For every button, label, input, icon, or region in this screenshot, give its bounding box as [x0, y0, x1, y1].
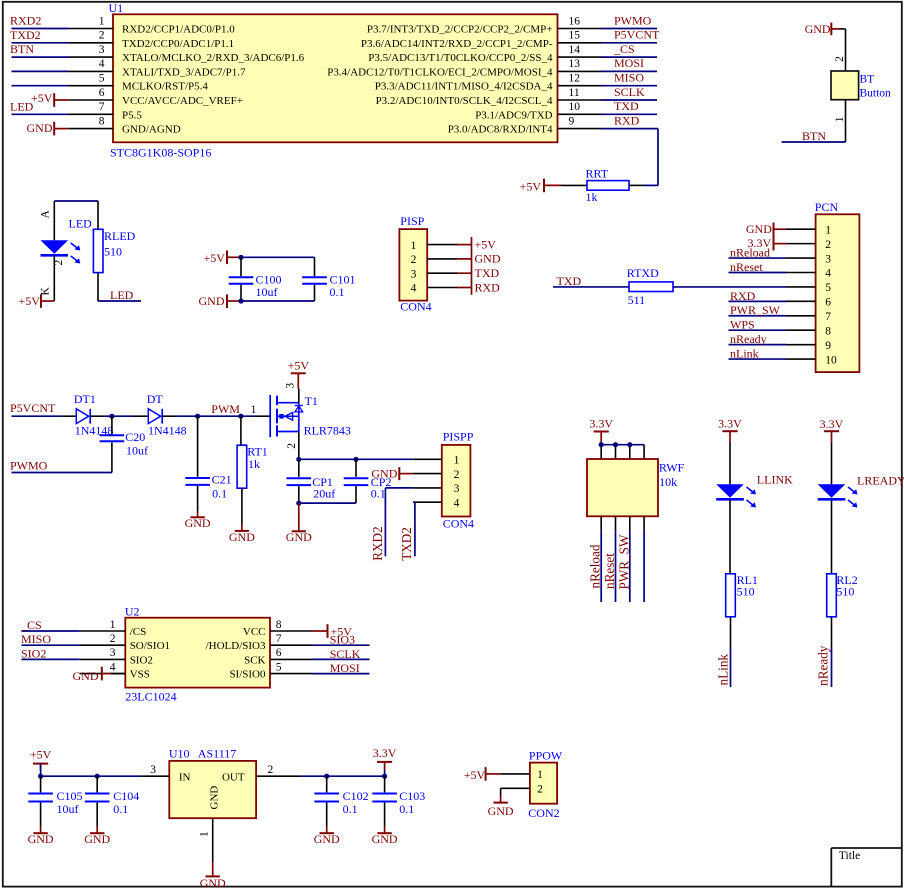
svg-text:23LC1024: 23LC1024 — [125, 690, 176, 704]
svg-text:2: 2 — [454, 469, 460, 481]
PCN pin 3 — [786, 253, 831, 265]
svg-text:+5V: +5V — [31, 91, 53, 105]
wire nReady — [831, 648, 833, 687]
U1 pin 10 P3.1/ADC9/TXD — [475, 101, 601, 121]
svg-text:MOSI: MOSI — [330, 661, 360, 675]
wire SIO2 — [22, 658, 80, 660]
wire nLink — [729, 358, 787, 360]
svg-text:0.1: 0.1 — [113, 802, 128, 816]
svg-text:+5V: +5V — [288, 358, 310, 372]
svg-text:1: 1 — [537, 769, 543, 781]
wire _CS — [601, 56, 657, 58]
svg-text:GND: GND — [200, 876, 226, 889]
wire MISO — [22, 644, 80, 646]
PCN pin 9 — [786, 340, 831, 352]
svg-text:C105: C105 — [57, 789, 83, 803]
svg-text:3: 3 — [150, 764, 156, 776]
U1 pin 11 P3.2/ADC10/INT0/SCLK_4/I2CSCL_4 — [376, 87, 601, 107]
svg-text:GND: GND — [229, 530, 255, 544]
svg-text:+5V: +5V — [30, 748, 52, 762]
svg-text:6: 6 — [99, 87, 105, 99]
svg-text:PWM: PWM — [211, 402, 240, 416]
svg-text:GND: GND — [488, 804, 514, 818]
svg-text:5: 5 — [825, 282, 831, 294]
svg-text:TXD2: TXD2 — [10, 28, 41, 42]
ground GND at C102 — [314, 826, 340, 846]
svg-text:3: 3 — [825, 253, 831, 265]
svg-text:MOSI: MOSI — [614, 56, 644, 70]
net label MISO — [614, 71, 644, 85]
svg-text:2: 2 — [537, 784, 543, 796]
wire BTN — [782, 141, 846, 143]
net label MOSI — [614, 56, 644, 70]
PCN pin 4 — [786, 268, 831, 280]
U1 pin 8 GND/AGND — [69, 115, 181, 135]
power GND at BT pin 2 — [805, 22, 840, 36]
power 3.3V at LLINK — [718, 417, 742, 443]
svg-text:C20: C20 — [125, 430, 145, 444]
svg-text:C103: C103 — [399, 789, 425, 803]
svg-text:1: 1 — [834, 116, 846, 122]
svg-text:RXD: RXD — [614, 113, 640, 127]
PCN pin 10 — [786, 354, 837, 366]
wire MOSI — [312, 673, 370, 675]
capacitor C21 0.1 — [185, 416, 231, 511]
svg-text:10: 10 — [569, 101, 581, 113]
ground GND at PPOW pin 2 — [488, 788, 514, 818]
U10 pin 2 OUT — [256, 764, 300, 776]
svg-text:MISO: MISO — [21, 632, 51, 646]
svg-text:2: 2 — [834, 56, 846, 62]
wire (unlabelled stub) — [12, 70, 70, 72]
wire CP bottom rail — [299, 502, 356, 504]
PISPP pin 4 — [413, 497, 459, 509]
svg-text:CON2: CON2 — [528, 806, 559, 820]
net label TXD — [557, 274, 582, 288]
svg-text:20uf: 20uf — [313, 487, 335, 501]
transistor T1 RLR7843 P-MOSFET — [251, 383, 351, 460]
svg-text:RTXD: RTXD — [627, 266, 659, 280]
junction — [296, 457, 301, 462]
svg-text:14: 14 — [569, 44, 581, 56]
svg-text:16: 16 — [569, 15, 581, 27]
wire RXD to resistor RRT — [644, 129, 658, 186]
U1 pin 5 MCLKO/RST/P5.4 — [69, 73, 208, 93]
wire nReload — [729, 257, 787, 259]
svg-text:P3.5/ADC13/T1/T0CLKO/CCP0_2/SS: P3.5/ADC13/T1/T0CLKO/CCP0_2/SS_4 — [368, 52, 553, 64]
ground GND at PISPP pin 2 — [371, 466, 413, 480]
svg-text:nReset: nReset — [730, 260, 763, 274]
svg-text:2: 2 — [825, 239, 831, 251]
svg-text:nReady: nReady — [816, 645, 831, 686]
svg-text:GND: GND — [314, 832, 340, 846]
svg-text:0.1: 0.1 — [371, 487, 386, 501]
svg-text:PWR_SW: PWR_SW — [730, 303, 781, 317]
diode DT1 1N4148 — [74, 392, 113, 438]
resistor network RWF 10k — [587, 459, 685, 531]
net label nReload — [730, 245, 770, 259]
power +5V at T1 pin 3 — [288, 358, 310, 388]
wire MOSI — [601, 70, 657, 72]
U1 pin 7 P5.5 — [69, 101, 142, 121]
svg-text:AS1117: AS1117 — [198, 747, 236, 761]
svg-text:GND: GND — [199, 294, 225, 308]
U2 pin 5 SI/SIO0 — [229, 661, 312, 680]
svg-text:GND: GND — [27, 121, 53, 135]
svg-text:P3.4/ADC12/T0/T1CLKO/ECI_2/CMP: P3.4/ADC12/T0/T1CLKO/ECI_2/CMPO/MOSI_4 — [327, 66, 553, 78]
wire P5VCNT — [12, 415, 77, 417]
net label RXD — [730, 289, 756, 303]
net label nReload — [588, 544, 603, 588]
svg-text:PPOW: PPOW — [529, 748, 563, 762]
svg-text:/HOLD/SIO3: /HOLD/SIO3 — [206, 640, 266, 652]
svg-text:RXD: RXD — [730, 289, 756, 303]
U2 pin 7 /HOLD/SIO3 — [206, 633, 312, 652]
LED diode LED — [40, 201, 99, 301]
svg-text:RXD2: RXD2 — [370, 526, 385, 560]
junction — [238, 298, 243, 303]
svg-text:BTN: BTN — [802, 129, 826, 143]
svg-text:nReady: nReady — [730, 332, 767, 346]
capacitor C105 10uf — [28, 776, 82, 826]
resistor RL1 510 — [726, 573, 758, 648]
net label SIO2 — [21, 646, 46, 660]
junction — [95, 774, 100, 779]
capacitor C104 0.1 — [85, 776, 139, 826]
net label +5V — [475, 237, 497, 251]
svg-text:5: 5 — [276, 661, 282, 673]
svg-text:8: 8 — [276, 619, 282, 631]
U10 pin 3 IN — [141, 764, 170, 776]
svg-text:510: 510 — [737, 584, 755, 598]
junction — [324, 774, 329, 779]
red stub wires to PISP labels — [457, 237, 472, 295]
svg-text:OUT: OUT — [222, 772, 245, 784]
svg-text:LED: LED — [10, 100, 34, 114]
wire GND rail — [241, 300, 315, 302]
net label nReady — [816, 645, 831, 686]
svg-text:1k: 1k — [248, 457, 260, 471]
svg-text:RLED: RLED — [104, 229, 136, 243]
junction — [627, 442, 632, 447]
svg-text:P5VCNT: P5VCNT — [614, 28, 660, 42]
switch BT Button — [831, 56, 891, 142]
net label TXD2 — [10, 28, 41, 42]
ground GND at C100 — [199, 294, 242, 308]
wire TXD2 — [413, 502, 415, 556]
power GND at PCN pin 1 — [746, 222, 786, 236]
svg-text:SCLK: SCLK — [330, 647, 361, 661]
svg-text:P3.1/ADC9/TXD: P3.1/ADC9/TXD — [475, 109, 552, 121]
net label P5VCNT — [614, 28, 660, 42]
wire TXD — [553, 286, 629, 288]
net label _CS — [20, 618, 42, 632]
net label BTN — [10, 42, 34, 56]
svg-text:4: 4 — [110, 661, 116, 673]
svg-text:0.1: 0.1 — [330, 285, 345, 299]
svg-text:2: 2 — [411, 254, 417, 266]
ground GND at C103 — [372, 826, 398, 846]
svg-text:SCK: SCK — [244, 654, 265, 666]
wire nReload — [600, 531, 602, 602]
U2 pin 1 /CS — [80, 619, 147, 638]
wire BTN — [12, 56, 70, 58]
svg-text:U1: U1 — [109, 1, 124, 15]
net label LED — [110, 288, 134, 302]
svg-text:WPS: WPS — [730, 318, 755, 332]
svg-text:GND: GND — [73, 669, 99, 683]
power +5V at input rail — [30, 748, 52, 770]
capacitor C20 10uf — [100, 416, 148, 472]
junction — [195, 414, 200, 419]
PISP pin 1 — [411, 240, 457, 252]
svg-text:4: 4 — [411, 283, 417, 295]
wire SCLK — [601, 99, 657, 101]
svg-text:GND: GND — [209, 786, 221, 810]
wire PWM — [176, 415, 255, 417]
svg-text:C21: C21 — [212, 473, 232, 487]
svg-text:PISPP: PISPP — [443, 430, 474, 444]
svg-text:PWMO: PWMO — [10, 458, 48, 472]
svg-text:3.3V: 3.3V — [718, 417, 742, 431]
PISPP pin 3 — [413, 483, 459, 495]
IC U1 STC8G1K08-SOP16 — [69, 1, 601, 159]
svg-text:10uf: 10uf — [256, 285, 278, 299]
svg-text:7: 7 — [276, 633, 282, 645]
junction — [613, 442, 618, 447]
power +5V at U2 pin 8 — [312, 624, 352, 638]
junction — [296, 501, 301, 506]
net label _CS — [613, 42, 635, 56]
wire RTXD to PCN pin 5 — [673, 286, 786, 288]
U1 pin 16 P3.7/INT3/TXD_2/CCP2/CCP2_2/CMP+ — [367, 15, 601, 35]
svg-text:GND: GND — [805, 22, 831, 36]
U2 pin 4 VSS — [80, 661, 150, 680]
svg-text:8: 8 — [99, 115, 105, 127]
wire (4th RWF pin) — [643, 531, 645, 602]
svg-text:10k: 10k — [659, 475, 677, 489]
U1 pin 13 P3.4/ADC12/T0/T1CLKO/ECI_2/CMPO/MOSI_4 — [327, 58, 601, 78]
wire LED net — [98, 300, 141, 302]
svg-text:P3.6/ADC14/INT2/RXD_2/CCP1_2/C: P3.6/ADC14/INT2/RXD_2/CCP1_2/CMP- — [361, 38, 553, 50]
PISPP pin 1 — [413, 455, 459, 467]
svg-text:LED: LED — [69, 217, 93, 231]
svg-text:P3.3/ADC11/INT1/MISO_4/I2CSDA_: P3.3/ADC11/INT1/MISO_4/I2CSDA_4 — [375, 81, 553, 93]
power +5V at RRT — [520, 179, 561, 194]
U1 pin 4 XTALI/TXD_3/ADC7/P1.7 — [69, 58, 246, 78]
svg-text:C104: C104 — [113, 789, 139, 803]
svg-text:DT1: DT1 — [74, 392, 96, 406]
svg-text:TXD2/CCP0/ADC1/P1.1: TXD2/CCP0/ADC1/P1.1 — [122, 38, 234, 50]
svg-text:7: 7 — [99, 101, 105, 113]
net label SCLK — [330, 647, 361, 661]
wire GND to BT — [840, 29, 846, 71]
ground GND at C105 — [28, 826, 54, 846]
wire U10 output rail — [300, 775, 385, 777]
diode DT 1N4148 — [134, 392, 187, 438]
svg-text:RLR7843: RLR7843 — [304, 424, 351, 438]
wire 3.3V rail at RWF — [601, 445, 644, 459]
net label PWR_SW — [730, 303, 781, 317]
U2 pin 8 VCC — [243, 619, 312, 638]
power +5V at C100 — [204, 251, 242, 265]
PPOW pin 2 — [501, 784, 544, 796]
svg-text:0.1: 0.1 — [399, 802, 414, 816]
U2 pin 3 SIO2 — [80, 647, 153, 666]
svg-text:SIO2: SIO2 — [21, 646, 46, 660]
resistor RTXD 511 — [627, 266, 673, 307]
U1 pin 12 P3.3/ADC11/INT1/MISO_4/I2CSDA_4 — [375, 73, 601, 93]
svg-text:BTN: BTN — [10, 42, 34, 56]
wire to junction — [104, 415, 134, 417]
svg-text:nReload: nReload — [588, 544, 603, 588]
svg-text:RWF: RWF — [659, 461, 685, 475]
PISP pin 2 — [411, 254, 457, 266]
svg-text:1: 1 — [110, 619, 116, 631]
junction — [38, 774, 43, 779]
U2 pin 2 SO/SIO1 — [80, 633, 170, 652]
svg-text:RXD: RXD — [475, 280, 501, 294]
capacitor C101 0.1 — [302, 257, 355, 301]
wire RXD — [729, 300, 787, 302]
net label RXD2 — [10, 14, 41, 28]
svg-text:TXD2: TXD2 — [399, 527, 414, 561]
resistor RRT 1k — [561, 167, 644, 204]
svg-text:P3.7/INT3/TXD_2/CCP2/CCP2_2/CM: P3.7/INT3/TXD_2/CCP2/CCP2_2/CMP+ — [367, 24, 553, 36]
ground GND at C104 — [84, 826, 110, 846]
svg-text:SI/SIO0: SI/SIO0 — [229, 669, 266, 681]
svg-text:CON4: CON4 — [443, 517, 474, 531]
wire SIO3 — [312, 644, 370, 646]
wire PWR_SW — [729, 315, 787, 317]
ground GND at U1 pin 8 — [27, 121, 70, 135]
svg-text:10: 10 — [825, 354, 837, 366]
net label nReady — [730, 332, 767, 346]
svg-text:GND: GND — [185, 516, 211, 530]
svg-text:XTALI/TXD_3/ADC7/P1.7: XTALI/TXD_3/ADC7/P1.7 — [122, 66, 246, 78]
ground GND at U2 pin 4 — [73, 667, 126, 683]
net label nReset — [602, 553, 617, 589]
svg-text:1: 1 — [454, 455, 460, 467]
net label RXD2 — [370, 526, 385, 560]
power 3.3V at LREADY — [820, 417, 844, 443]
connector PISPP CON4 — [413, 430, 474, 531]
junction — [238, 414, 243, 419]
regulator U10 AS1117 — [141, 747, 300, 863]
svg-text:+5V: +5V — [520, 180, 542, 194]
resistor RT1 1k — [237, 416, 268, 524]
svg-text:3.3V: 3.3V — [373, 746, 397, 760]
svg-text:1: 1 — [199, 831, 211, 837]
wire PWMO — [601, 28, 657, 30]
svg-text:LREADY: LREADY — [857, 473, 904, 487]
svg-text:1: 1 — [411, 240, 417, 252]
wire WPS — [729, 329, 787, 331]
U1 pin 14 P3.5/ADC13/T1/T0CLKO/CCP0_2/SS_4 — [368, 44, 601, 64]
svg-text:nLink: nLink — [730, 346, 759, 360]
svg-text:+5V: +5V — [204, 251, 226, 265]
wire TXD — [601, 113, 657, 115]
svg-text:3.3V: 3.3V — [820, 417, 844, 431]
svg-text:U10: U10 — [169, 747, 190, 761]
svg-text:4: 4 — [825, 268, 831, 280]
net label WPS — [730, 318, 755, 332]
capacitor C100 10uf — [229, 257, 282, 301]
svg-text:1k: 1k — [586, 190, 598, 204]
wire +5V rail — [241, 256, 315, 258]
svg-text:3: 3 — [110, 647, 116, 659]
ground GND at U10 pin 1 — [200, 862, 226, 889]
wire (unlabelled stub) — [12, 85, 70, 87]
U1 pin 1 RXD2/CCP1/ADC0/P1.0 — [69, 15, 235, 35]
svg-text:MISO: MISO — [614, 71, 644, 85]
svg-text:2: 2 — [286, 443, 298, 449]
PCN pin 7 — [786, 311, 831, 323]
U1 pin 15 P3.6/ADC14/INT2/RXD_2/CCP1_2/CMP- — [361, 30, 601, 50]
svg-text:13: 13 — [569, 58, 581, 70]
svg-text:7: 7 — [825, 311, 831, 323]
svg-text:2: 2 — [268, 764, 274, 776]
wire nReset — [615, 531, 617, 602]
svg-text:0.1: 0.1 — [212, 487, 227, 501]
svg-text:TXD: TXD — [557, 274, 582, 288]
svg-text:4: 4 — [99, 58, 105, 70]
svg-text:PWMO: PWMO — [614, 13, 652, 27]
U2 pin 6 SCK — [244, 647, 312, 666]
junction — [599, 442, 604, 447]
wire LED — [12, 113, 70, 115]
capacitor CP1 20uf — [287, 459, 336, 503]
svg-text:DT: DT — [147, 392, 164, 406]
svg-text:RRT: RRT — [586, 167, 609, 181]
net label RXD — [614, 113, 640, 127]
svg-text:P5VCNT: P5VCNT — [10, 401, 56, 415]
U1 pin 6 VCC/AVCC/ADC_VREF+ — [69, 87, 243, 107]
ground GND at C21 — [185, 511, 211, 530]
svg-text:+5V: +5V — [475, 237, 497, 251]
PCN pin 8 — [786, 325, 831, 337]
svg-text:2: 2 — [110, 633, 116, 645]
svg-text:Button: Button — [860, 88, 892, 100]
svg-text:XTALO/MCLKO_2/RXD_3/ADC6/P1.6: XTALO/MCLKO_2/RXD_3/ADC6/P1.6 — [122, 52, 305, 64]
svg-text:+5V: +5V — [19, 294, 41, 308]
wire _CS — [22, 630, 80, 632]
svg-text:PISP: PISP — [400, 214, 424, 228]
capacitor C102 0.1 — [314, 776, 368, 826]
svg-text:STC8G1K08-SOP16: STC8G1K08-SOP16 — [110, 145, 211, 159]
svg-text:510: 510 — [104, 244, 122, 258]
junction — [109, 414, 114, 419]
net label PWM — [211, 402, 240, 416]
wire SCLK — [312, 658, 370, 660]
svg-text:8: 8 — [825, 325, 831, 337]
net label GND — [475, 252, 501, 266]
svg-text:RXD2/CCP1/ADC0/P1.0: RXD2/CCP1/ADC0/P1.0 — [122, 24, 235, 36]
wire PWMO — [12, 472, 112, 474]
svg-text:GND: GND — [371, 466, 397, 480]
svg-text:1: 1 — [825, 224, 831, 236]
net label nLink — [716, 654, 731, 686]
wire nReady — [729, 344, 787, 346]
svg-text:C102: C102 — [343, 789, 369, 803]
svg-text:GND: GND — [475, 252, 501, 266]
svg-text:10uf: 10uf — [57, 802, 79, 816]
svg-text:nLink: nLink — [716, 654, 731, 686]
net label nLink — [730, 346, 759, 360]
svg-text:Title: Title — [839, 850, 860, 862]
svg-text:1: 1 — [251, 404, 257, 416]
PCN pin 6 — [786, 297, 831, 309]
